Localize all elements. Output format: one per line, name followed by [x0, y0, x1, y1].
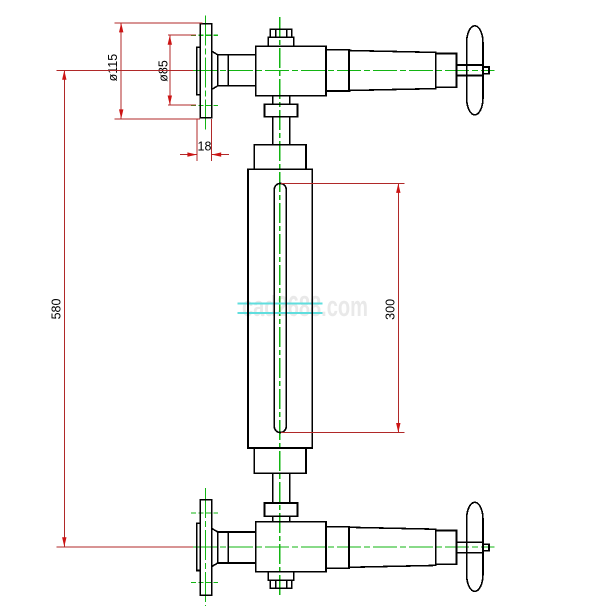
dim o115 extension bottom	[115, 118, 201, 120]
top flange plate	[200, 24, 211, 118]
bottom hex nut flat right	[286, 580, 288, 588]
svg-text:cad2688.com: cad2688.com	[242, 291, 368, 323]
centerline bottom valve axis	[193, 546, 495, 548]
bottom handwheel	[467, 502, 483, 591]
bolt circle line bottom flange lower	[191, 582, 218, 584]
bottom flange hub taper	[212, 528, 218, 566]
top gland stem lower	[273, 117, 290, 145]
dim 18 line left	[180, 154, 197, 156]
svg-text:18: 18	[198, 140, 212, 154]
bottom gland nut	[265, 503, 298, 516]
dim 18 extension left	[196, 119, 198, 161]
top handwheel	[467, 26, 483, 115]
dim 580 arrow top	[62, 70, 66, 80]
top hex nut flat left	[275, 29, 277, 37]
dim o85 extension top	[168, 34, 196, 36]
top flange hub taper	[212, 51, 218, 89]
dim o115 line	[120, 23, 122, 119]
svg-text:300: 300	[384, 299, 398, 320]
gauge body	[248, 169, 312, 448]
top gland stem upper	[273, 96, 290, 105]
svg-text:ø85: ø85	[157, 60, 171, 82]
bottom stem housing end	[436, 531, 457, 565]
dim 18 line right	[212, 154, 229, 156]
level line upper	[238, 303, 323, 305]
top pipe joint line	[227, 55, 229, 86]
top valve body	[256, 46, 326, 96]
dim o115 extension top	[115, 22, 203, 24]
svg-text:ø115: ø115	[106, 54, 120, 82]
dim 300 extension bottom	[281, 432, 405, 434]
dim 580 arrow bottom	[62, 537, 66, 547]
bottom pipe joint line	[227, 532, 229, 563]
svg-text:580: 580	[50, 299, 64, 320]
dim o85 extension bottom	[168, 104, 196, 106]
top stem housing taper	[349, 51, 436, 91]
dim 300 arrow bottom	[396, 423, 400, 433]
dim o115 arrow bottom	[119, 109, 123, 119]
bolt circle line bottom flange upper	[191, 512, 218, 514]
top flange gasket face	[197, 47, 201, 94]
top inlet pipe	[218, 55, 256, 86]
dim 580 line	[63, 70, 65, 547]
top hex nut flat right	[286, 29, 288, 37]
bottom flange gasket face	[197, 523, 201, 570]
dim 300 arrow top	[396, 183, 400, 193]
centerline top flange vertical	[205, 16, 207, 130]
dim 18 arrow left	[187, 152, 197, 156]
bottom gland stem upper	[273, 473, 290, 503]
top gland nut	[265, 104, 298, 117]
top bonnet cap	[268, 37, 293, 46]
dim 18 arrow right	[212, 152, 222, 156]
bottom bonnet cap	[268, 572, 293, 580]
bottom gland stem lower	[273, 516, 290, 522]
top stem housing end	[436, 54, 457, 88]
bottom stem housing neck	[326, 527, 349, 568]
top valve stem	[457, 65, 484, 76]
dim 18 extension right	[211, 119, 213, 161]
bottom hex nut flat left	[275, 580, 277, 588]
bolt circle line top flange upper	[191, 34, 218, 36]
dim o85 arrow top	[168, 35, 172, 45]
level line lower	[238, 312, 323, 314]
dim 300 extension top	[281, 182, 405, 184]
bolt circle line top flange lower	[191, 104, 218, 106]
gauge top chamber	[254, 145, 306, 169]
top stem housing neck	[326, 50, 349, 91]
dim 580 extension bottom	[56, 546, 193, 548]
bottom flange plate	[200, 500, 211, 596]
top stem end nut	[483, 67, 489, 74]
bottom stem housing taper	[349, 527, 436, 567]
centerline gauge vertical axis	[279, 17, 281, 596]
sight glass slot	[274, 183, 286, 432]
bottom hex nut	[270, 580, 292, 588]
bottom valve stem	[457, 542, 484, 553]
gauge bottom chamber	[254, 448, 306, 473]
dim 300 line	[397, 183, 399, 432]
top hex nut	[270, 29, 292, 37]
dim 580 extension top	[56, 69, 193, 71]
bottom inlet pipe	[218, 532, 256, 563]
dim o85 line	[169, 35, 171, 105]
bottom stem end nut	[483, 544, 489, 551]
centerline top valve axis	[193, 69, 495, 71]
bottom valve body	[256, 522, 326, 572]
centerline bottom flange vertical	[205, 488, 207, 606]
dim o115 arrow top	[119, 23, 123, 33]
dim o85 arrow bottom	[168, 96, 172, 106]
